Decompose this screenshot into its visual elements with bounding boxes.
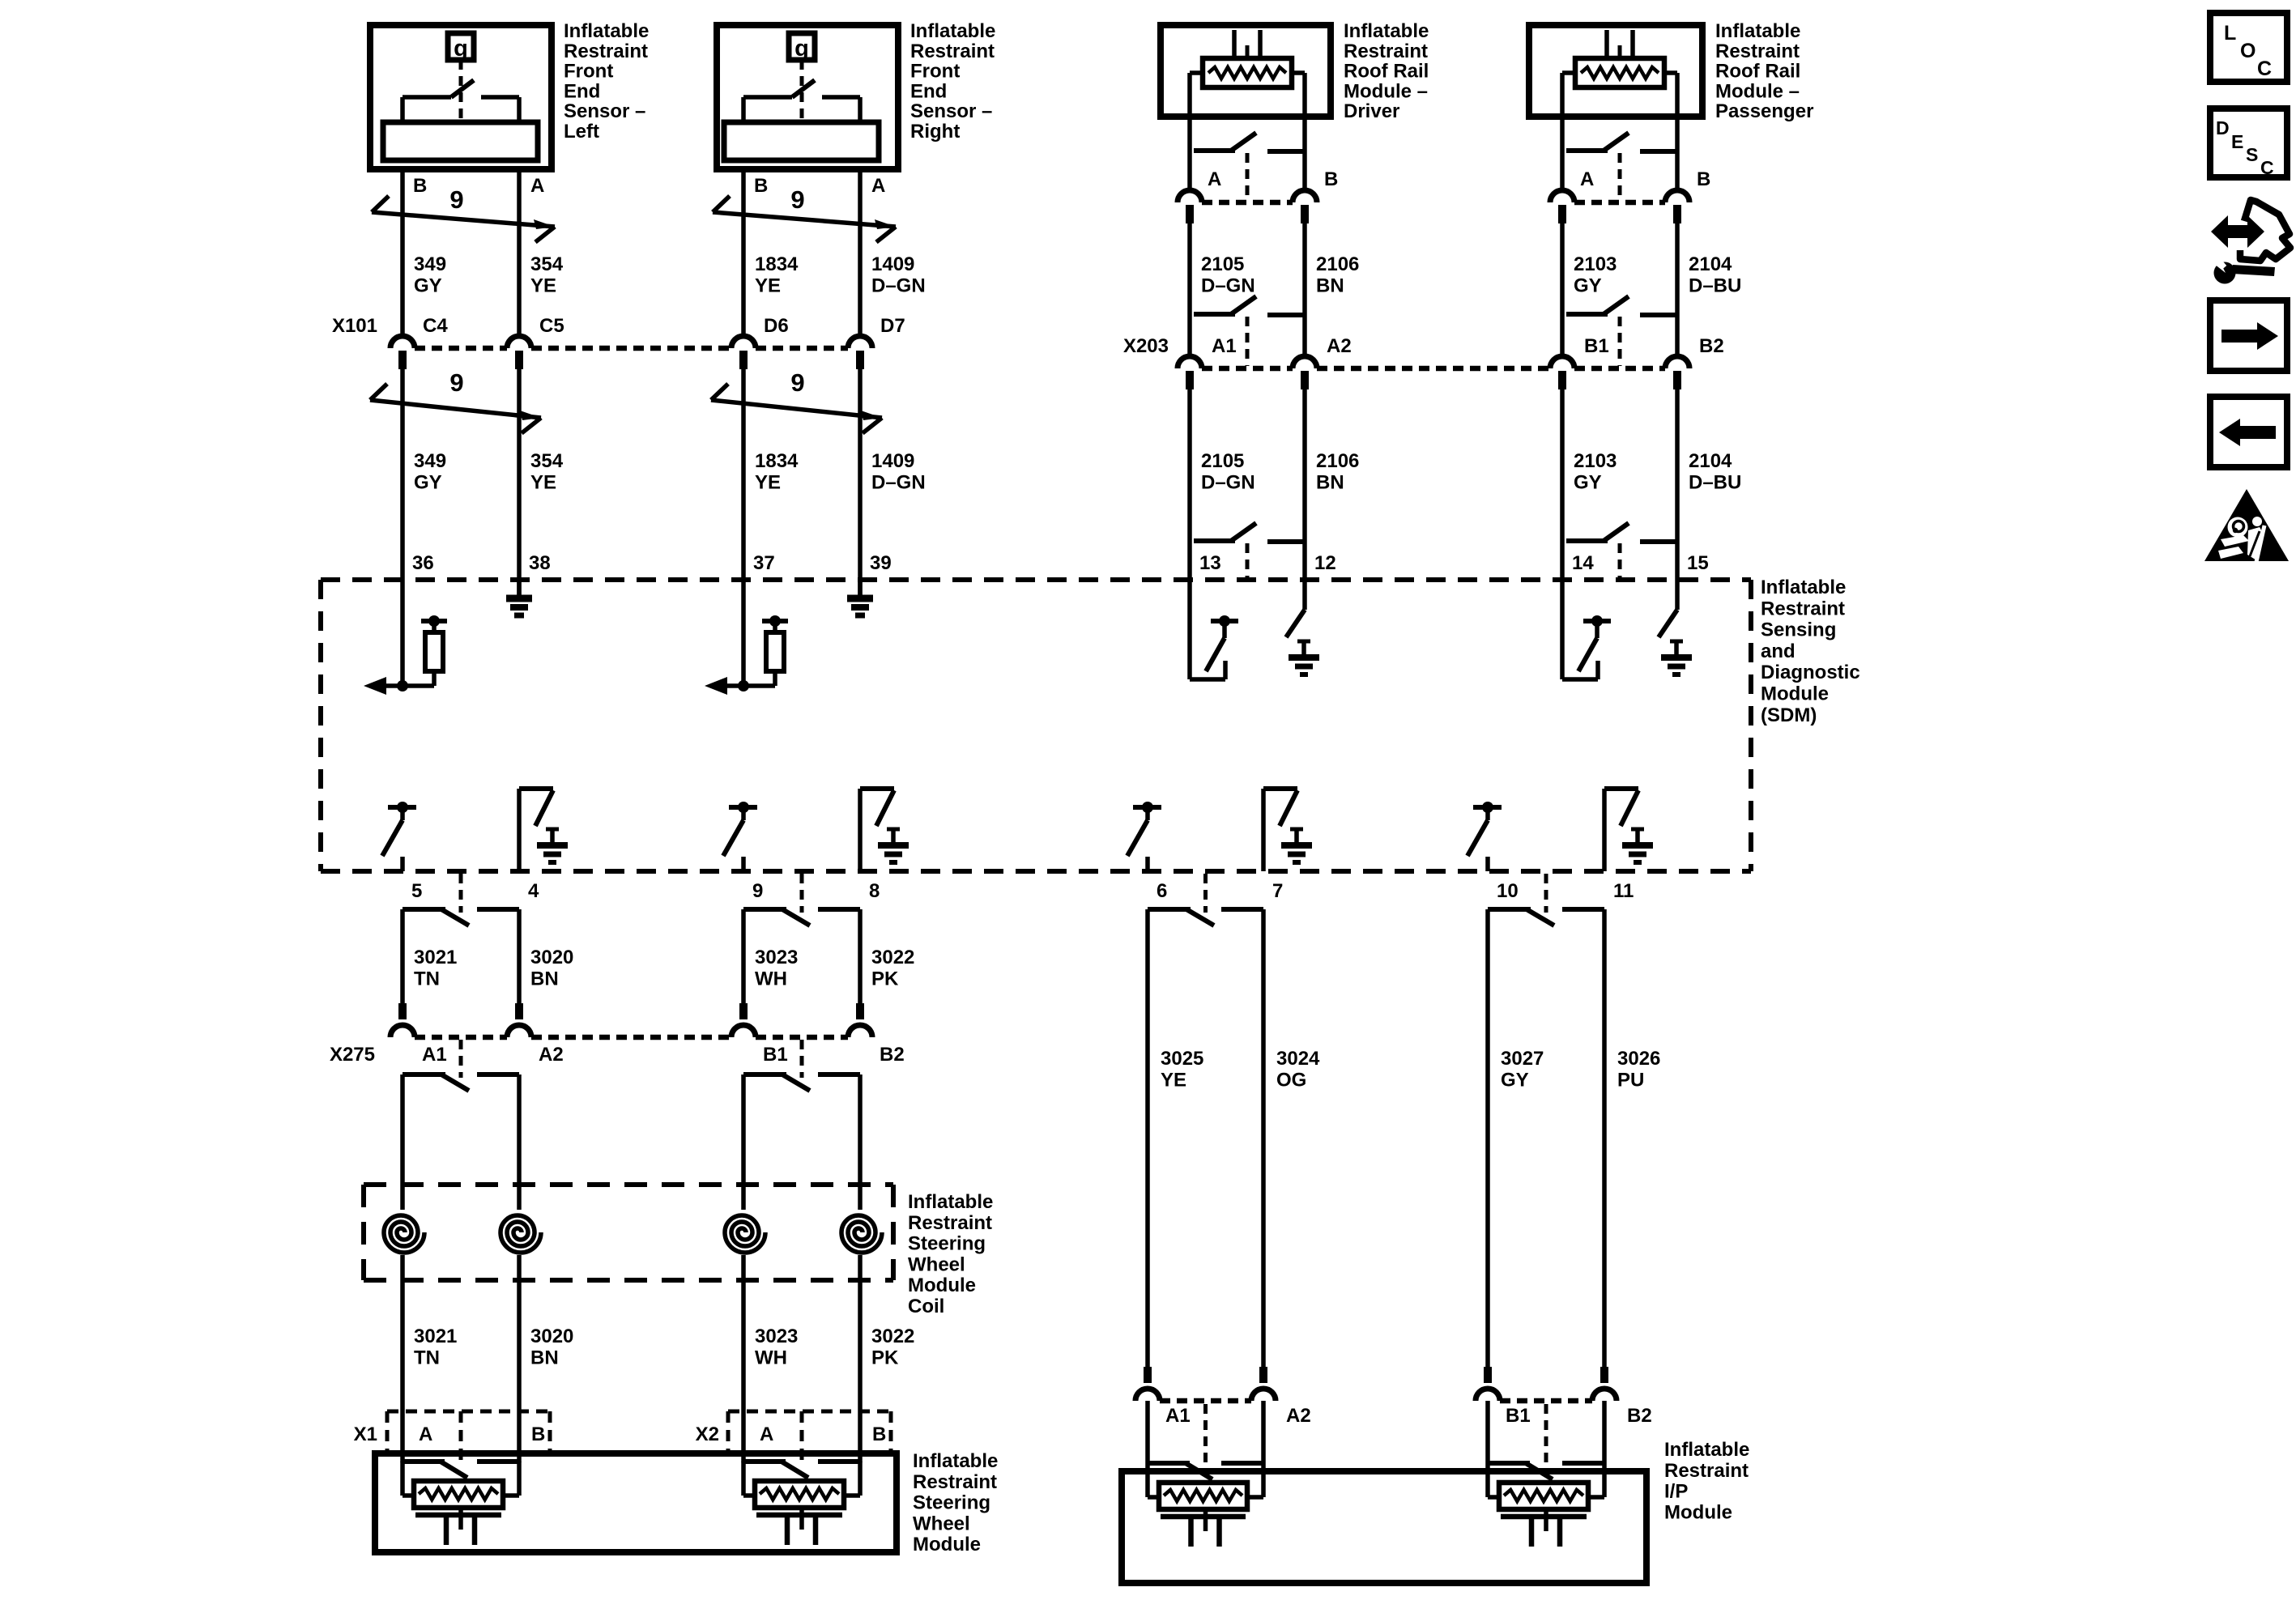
svg-text:Front: Front	[564, 61, 613, 83]
svg-text:X275: X275	[330, 1044, 375, 1066]
svg-text:YE: YE	[755, 274, 781, 296]
squib element inside Inflatable Restraint Roof Rail Module - Driver	[1190, 30, 1305, 189]
svg-text:I/P: I/P	[1664, 1481, 1688, 1503]
svg-text:9: 9	[790, 368, 804, 397]
wire label 354 YE	[530, 253, 564, 296]
wire label 2105 D–GN	[1201, 253, 1255, 296]
wire 354 YE segment: X101 to SDM pin 38	[517, 369, 522, 580]
svg-text:A2: A2	[539, 1044, 564, 1066]
svg-text:4: 4	[528, 880, 539, 902]
wire label 3022 PK	[871, 947, 914, 989]
svg-text:349: 349	[414, 253, 446, 275]
svg-text:36: 36	[412, 552, 434, 574]
svg-text:Wheel: Wheel	[908, 1253, 965, 1275]
svg-text:YE: YE	[755, 471, 781, 493]
svg-text:B: B	[1697, 168, 1710, 190]
svg-text:C: C	[2257, 57, 2272, 80]
connector X101 terminal C5	[507, 336, 531, 369]
svg-text:Roof Rail: Roof Rail	[1344, 61, 1429, 83]
svg-text:L: L	[2224, 22, 2236, 45]
wire label 1834 YE	[755, 450, 799, 493]
svg-text:15: 15	[1687, 552, 1709, 574]
svg-text:7: 7	[1272, 880, 1283, 902]
wire 1834 YE segment: sensor pin B to X101	[741, 172, 746, 335]
svg-text:Right: Right	[910, 121, 960, 143]
svg-text:A: A	[419, 1423, 432, 1445]
svg-text:BN: BN	[1316, 471, 1344, 493]
svg-text:Restraint: Restraint	[908, 1212, 992, 1234]
wire label 2103 GY	[1574, 253, 1617, 296]
connector X101 terminal D7	[848, 336, 872, 369]
svg-text:O: O	[2240, 40, 2256, 62]
connector terminal B of Inflatable Restraint Roof Rail Module - Passenger	[1665, 190, 1689, 223]
svg-text:A: A	[871, 175, 885, 197]
wire 3024 OG segment: SDM to I/P module	[1261, 909, 1266, 1368]
svg-text:38: 38	[529, 552, 551, 574]
wire 2105 D–GN segment: X203 to SDM pin 13	[1187, 388, 1192, 580]
wire count marker: 9	[370, 368, 541, 433]
svg-text:YE: YE	[530, 274, 556, 296]
svg-text:8: 8	[869, 880, 880, 902]
svg-text:2105: 2105	[1201, 253, 1244, 275]
connector X275 dashed body	[415, 1035, 848, 1040]
wire label 1409 D–GN	[871, 253, 926, 296]
svg-text:6: 6	[1157, 880, 1167, 902]
svg-text:1409: 1409	[871, 450, 914, 472]
I/P module connector pin labels A1 A2 B1 B2	[1165, 1405, 1652, 1427]
wire label 2106 BN	[1316, 253, 1359, 296]
wire 2105 D–GN segment: roof rail module to X203	[1187, 223, 1192, 357]
svg-text:B: B	[872, 1423, 886, 1445]
wire 3025 YE segment: SDM to I/P module	[1145, 909, 1150, 1368]
pin letters A/B of Inflatable Restraint Roof Rail Module - Passenger	[1580, 168, 1710, 190]
wires from I/P connector into module	[1148, 1401, 1263, 1463]
svg-text:Front: Front	[910, 61, 960, 83]
SDM pin labels 36 38	[412, 552, 551, 574]
svg-text:13: 13	[1199, 552, 1221, 574]
svg-text:Inflatable: Inflatable	[910, 20, 995, 42]
wire 1834 YE segment: X101 to SDM pin 37	[741, 369, 746, 580]
svg-text:Module: Module	[913, 1534, 981, 1555]
I/P module connector terminal A2	[1251, 1367, 1276, 1401]
svg-text:B: B	[754, 175, 768, 197]
svg-text:1834: 1834	[755, 253, 799, 275]
wire label 3023 WH	[755, 1326, 798, 1368]
svg-text:E: E	[2231, 131, 2243, 152]
connector symbol at Inflatable Restraint Roof Rail Module - Driver (A/B)	[1194, 133, 1305, 200]
svg-text:3024: 3024	[1276, 1048, 1320, 1070]
wire 2104 D–BU segment: roof rail module to X203	[1675, 223, 1680, 357]
label: Inflatable Restraint Steering Wheel Module	[913, 1450, 998, 1555]
wire 3027 GY segment: SDM to I/P module	[1485, 909, 1490, 1368]
svg-text:YE: YE	[1161, 1069, 1186, 1091]
wire count marker: 9	[713, 185, 896, 242]
svg-text:A: A	[530, 175, 544, 197]
wire 349 GY segment: X101 to SDM pin 36	[400, 369, 405, 580]
connector X203 pin labels A1 A2 B1 B2	[1212, 335, 1724, 357]
svg-text:TN: TN	[414, 968, 440, 989]
wire label 1409 D–GN	[871, 450, 926, 493]
svg-text:Coil: Coil	[908, 1296, 944, 1317]
svg-text:Roof Rail: Roof Rail	[1715, 61, 1800, 83]
svg-text:Sensor –: Sensor –	[910, 100, 992, 122]
svg-text:A1: A1	[422, 1044, 447, 1066]
svg-text:D–BU: D–BU	[1689, 471, 1741, 493]
wire 2106 BN segment: X203 to SDM pin 12	[1302, 388, 1307, 580]
connector X1 pin labels A B	[419, 1423, 545, 1445]
svg-text:2104: 2104	[1689, 253, 1732, 275]
wire label 2103 GY	[1574, 450, 1617, 493]
wire label 2105 D–GN	[1201, 450, 1255, 493]
svg-text:Restraint: Restraint	[1715, 40, 1800, 62]
connector dashed body at Inflatable Restraint Roof Rail Module - Driver	[1202, 200, 1293, 206]
sensor element (g-switch) inside Inflatable Restraint Front End Sensor - Right	[724, 33, 879, 160]
svg-text:2106: 2106	[1316, 450, 1359, 472]
wire label 354 YE	[530, 450, 564, 493]
wire label 3021 TN	[414, 947, 457, 989]
svg-text:WH: WH	[755, 968, 787, 989]
SDM pin labels 6 7	[1157, 880, 1283, 902]
svg-text:10: 10	[1497, 880, 1519, 902]
svg-text:End: End	[564, 80, 600, 102]
svg-text:3023: 3023	[755, 947, 798, 968]
svg-text:X1: X1	[354, 1423, 377, 1445]
coil L1 (clockspring winding)	[384, 1215, 424, 1253]
svg-text:3027: 3027	[1501, 1048, 1544, 1070]
wire label 2106 BN	[1316, 450, 1359, 493]
label: Inflatable Restraint Steering Wheel Module Coil	[908, 1191, 993, 1317]
svg-text:9: 9	[449, 368, 463, 397]
wire count marker: 9	[711, 368, 882, 433]
svg-text:Wheel: Wheel	[913, 1513, 970, 1534]
svg-text:g: g	[454, 36, 468, 62]
svg-text:3020: 3020	[530, 1326, 573, 1347]
SDM pin labels 10 11	[1497, 880, 1634, 902]
wire 3020 BN segment: X275 to coil	[517, 1074, 522, 1210]
SDM pin labels 5 4	[411, 880, 539, 902]
svg-text:Module –: Module –	[1344, 80, 1428, 102]
svg-text:A: A	[760, 1423, 773, 1445]
connector X203 symbol right pair	[1566, 296, 1677, 366]
connector X2 pin labels A B	[760, 1423, 886, 1445]
SDM internal switch-to-ground at pin 7	[1263, 789, 1312, 871]
connector terminal A of Inflatable Restraint Roof Rail Module - Passenger	[1550, 190, 1574, 223]
svg-text:Module: Module	[1761, 683, 1829, 705]
svg-text:GY: GY	[414, 274, 442, 296]
svg-text:D–GN: D–GN	[871, 274, 926, 296]
svg-text:B1: B1	[1506, 1405, 1531, 1427]
svg-text:X2: X2	[696, 1423, 719, 1445]
svg-text:WH: WH	[755, 1347, 787, 1368]
connector X1 dashed outline	[387, 1411, 550, 1462]
pin letters A/B of Inflatable Restraint Roof Rail Module - Driver	[1208, 168, 1338, 190]
svg-text:GY: GY	[1501, 1069, 1529, 1091]
connector X1 label	[354, 1423, 377, 1445]
svg-text:B: B	[531, 1423, 545, 1445]
wire label 3023 WH	[755, 947, 798, 989]
svg-text:349: 349	[414, 450, 446, 472]
svg-text:354: 354	[530, 253, 564, 275]
svg-text:g: g	[794, 36, 809, 62]
svg-text:Restraint: Restraint	[1761, 598, 1845, 619]
icon: airbag warning triangle	[2204, 489, 2289, 562]
svg-text:Passenger: Passenger	[1715, 100, 1813, 122]
SDM internal switch-to-ground at pin 15	[1659, 580, 1692, 674]
SDM internal deployment loop driver at pin 37	[705, 580, 788, 695]
svg-text:S: S	[2246, 144, 2258, 165]
squib element inside Inflatable Restraint Roof Rail Module - Passenger	[1562, 30, 1677, 189]
svg-text:5: 5	[411, 880, 422, 902]
SDM internal switch at pin 6	[1127, 802, 1161, 871]
wire 3022 PK segment: coil to steering wheel module	[858, 1255, 863, 1462]
connector terminal B of Inflatable Restraint Roof Rail Module - Driver	[1293, 190, 1317, 223]
svg-text:3025: 3025	[1161, 1048, 1203, 1070]
svg-text:(SDM): (SDM)	[1761, 704, 1817, 726]
wire 3023 WH segment: SDM to X275	[741, 909, 746, 1004]
connector X101 dashed body	[415, 346, 848, 351]
svg-text:B1: B1	[1584, 335, 1609, 357]
I/P module connector terminal B1	[1476, 1367, 1500, 1401]
pin letters B/A of Inflatable Restraint Front End Sensor - Left	[413, 175, 544, 197]
svg-text:14: 14	[1572, 552, 1594, 574]
wire label 3026 PU	[1617, 1048, 1660, 1091]
SDM internal ground at pin 38	[506, 580, 532, 615]
wire 349 GY segment: sensor pin B to X101	[400, 172, 405, 335]
SDM connector symbol at pins 13/12	[1194, 523, 1305, 577]
svg-text:2105: 2105	[1201, 450, 1244, 472]
connector X101 label	[332, 315, 377, 337]
connector X203 terminal A2	[1293, 356, 1317, 389]
wire 2103 GY segment: X203 to SDM pin 14	[1560, 388, 1565, 580]
svg-text:OG: OG	[1276, 1069, 1306, 1091]
svg-text:3021: 3021	[414, 947, 457, 968]
svg-text:BN: BN	[1316, 274, 1344, 296]
connector X275 label	[330, 1044, 375, 1066]
box: Inflatable Restraint Steering Wheel Module Coil, dashed outline	[364, 1185, 893, 1280]
svg-text:A1: A1	[1165, 1405, 1191, 1427]
wire 2104 D–BU segment: X203 to SDM pin 15	[1675, 388, 1680, 580]
svg-text:9: 9	[752, 880, 763, 902]
wire label 349 GY	[414, 253, 446, 296]
connector X275 terminal A1	[390, 1003, 415, 1037]
svg-text:9: 9	[790, 185, 804, 214]
svg-text:A: A	[1208, 168, 1221, 190]
svg-text:2104: 2104	[1689, 450, 1732, 472]
svg-text:YE: YE	[530, 471, 556, 493]
svg-text:GY: GY	[414, 471, 442, 493]
svg-text:D6: D6	[764, 315, 789, 337]
connector X2 label	[696, 1423, 719, 1445]
pin letters B/A of Inflatable Restraint Front End Sensor - Right	[754, 175, 885, 197]
svg-text:C4: C4	[423, 315, 448, 337]
driver airbag squib (steering wheel module, circuit 1)	[403, 1462, 519, 1545]
svg-text:3021: 3021	[414, 1326, 457, 1347]
svg-text:Driver: Driver	[1344, 100, 1399, 122]
connector symbol at Inflatable Restraint Roof Rail Module - Passenger (A/B)	[1566, 133, 1677, 200]
svg-text:B: B	[1324, 168, 1338, 190]
svg-text:37: 37	[753, 552, 775, 574]
wire 3021 TN segment: SDM to X275	[400, 909, 405, 1004]
wire 3023 WH segment: coil to steering wheel module	[741, 1255, 746, 1462]
connector X101 terminal C4	[390, 336, 415, 369]
svg-text:Inflatable: Inflatable	[1715, 20, 1800, 42]
passenger airbag squib (I/P module, circuit 1)	[1148, 1463, 1263, 1547]
svg-text:C: C	[2260, 157, 2274, 178]
svg-text:Inflatable: Inflatable	[913, 1450, 998, 1472]
svg-text:354: 354	[530, 450, 564, 472]
svg-text:B1: B1	[763, 1044, 788, 1066]
wire 2103 GY segment: roof rail module to X203	[1560, 223, 1565, 357]
svg-text:Restraint: Restraint	[1344, 40, 1428, 62]
connector X275 symbol left pair	[403, 1040, 519, 1091]
wire label 3024 OG	[1276, 1048, 1320, 1091]
svg-text:BN: BN	[530, 968, 559, 989]
SDM connector symbol at pins 14/15	[1566, 523, 1677, 577]
SDM pin labels 9 8	[752, 880, 880, 902]
svg-text:D–GN: D–GN	[1201, 274, 1255, 296]
connector X275 pin labels A1 A2 B1 B2	[422, 1044, 905, 1066]
connector dashed body at Inflatable Restraint Roof Rail Module - Passenger	[1574, 200, 1665, 206]
svg-text:Inflatable: Inflatable	[564, 20, 649, 42]
svg-text:12: 12	[1314, 552, 1336, 574]
svg-text:PU: PU	[1617, 1069, 1644, 1091]
svg-text:2103: 2103	[1574, 450, 1617, 472]
wire count marker: 9	[372, 185, 555, 242]
connector X2 dashed outline	[728, 1411, 891, 1462]
wire 3022 PK segment: SDM to X275	[858, 909, 863, 1004]
connector X101 terminal D6	[731, 336, 756, 369]
wire label 349 GY	[414, 450, 446, 493]
connector X203 label	[1123, 335, 1169, 357]
box B2: Inflatable Restraint Front End Sensor - Right	[717, 25, 898, 169]
svg-text:Restraint: Restraint	[913, 1471, 997, 1493]
icon: forward arrow button	[2210, 300, 2287, 371]
SDM internal switch-to-ground at pin 8	[860, 789, 909, 871]
label: Inflatable Restraint I/P Module	[1664, 1439, 1749, 1523]
svg-text:A: A	[1580, 168, 1594, 190]
SDM internal switch-to-ground at pin 11	[1604, 789, 1653, 871]
svg-text:B2: B2	[880, 1044, 905, 1066]
connector X203 terminal B2	[1665, 356, 1689, 389]
SDM internal switch at pin 14	[1562, 580, 1611, 679]
svg-text:Steering: Steering	[913, 1492, 990, 1514]
svg-text:D–BU: D–BU	[1689, 274, 1741, 296]
wire 3022 PK segment: X275 to coil	[858, 1074, 863, 1210]
svg-text:3022: 3022	[871, 1326, 914, 1347]
SDM internal switch at pin 9	[723, 802, 757, 871]
passenger airbag squib (I/P module, circuit 2)	[1488, 1463, 1604, 1547]
svg-text:BN: BN	[530, 1347, 559, 1368]
svg-text:Sensing: Sensing	[1761, 619, 1836, 641]
svg-text:D–GN: D–GN	[1201, 471, 1255, 493]
connector X203 terminal B1	[1550, 356, 1574, 389]
svg-text:Steering: Steering	[908, 1233, 986, 1255]
svg-text:3020: 3020	[530, 947, 573, 968]
wire 3023 WH segment: X275 to coil	[741, 1074, 746, 1210]
svg-text:Restraint: Restraint	[1664, 1460, 1749, 1482]
label: Inflatable Restraint Front End Sensor - Left	[564, 20, 649, 143]
svg-text:39: 39	[870, 552, 892, 574]
svg-text:1834: 1834	[755, 450, 799, 472]
wire label 3020 BN	[530, 947, 573, 989]
wire 3020 BN segment: SDM to X275	[517, 909, 522, 1004]
I/P module connector terminal A1	[1135, 1367, 1160, 1401]
box: Inflatable Restraint Roof Rail Module - Passenger	[1529, 25, 1702, 117]
SDM pin labels 13 12	[1199, 552, 1336, 574]
label: Inflatable Restraint Roof Rail Module - Passenger	[1715, 20, 1813, 122]
box U10: Inflatable Restraint Sensing and Diagnostic Module (SDM), dashed outline	[321, 580, 1751, 871]
wire 3021 TN segment: X275 to coil	[400, 1074, 405, 1210]
wire 354 YE segment: sensor pin A to X101	[517, 172, 522, 335]
wire 2106 BN segment: roof rail module to X203	[1302, 223, 1307, 357]
svg-text:9: 9	[449, 185, 463, 214]
sensor element (g-switch) inside Inflatable Restraint Front End Sensor - Left	[383, 33, 538, 160]
svg-text:Restraint: Restraint	[910, 40, 995, 62]
svg-text:Module –: Module –	[1715, 80, 1800, 102]
SDM connector symbol at pins 10/11	[1488, 874, 1604, 926]
SDM connector symbol at pins 6/7	[1148, 874, 1263, 926]
wire 3020 BN segment: coil to steering wheel module	[517, 1255, 522, 1462]
svg-text:3023: 3023	[755, 1326, 798, 1347]
svg-text:Inflatable: Inflatable	[1664, 1439, 1749, 1461]
box B1: Inflatable Restraint Front End Sensor - Left	[370, 25, 552, 169]
svg-text:A2: A2	[1286, 1405, 1311, 1427]
wire 3021 TN segment: coil to steering wheel module	[400, 1255, 405, 1462]
svg-text:Inflatable: Inflatable	[1344, 20, 1429, 42]
connector X275 terminal A2	[507, 1003, 531, 1037]
icon: LOC legend button	[2210, 13, 2287, 82]
svg-text:11: 11	[1613, 880, 1634, 902]
connector X275 terminal B1	[731, 1003, 756, 1037]
SDM pin labels 37 39	[753, 552, 892, 574]
svg-text:C5: C5	[539, 315, 564, 337]
svg-text:3022: 3022	[871, 947, 914, 968]
box: Inflatable Restraint Roof Rail Module - Driver	[1161, 25, 1331, 117]
SDM internal switch at pin 5	[382, 802, 416, 871]
label: Inflatable Restraint Sensing and Diagnostic Module (SDM)	[1761, 577, 1860, 726]
label: Inflatable Restraint Front End Sensor - Right	[910, 20, 995, 143]
SDM internal switch at pin 10	[1467, 802, 1502, 871]
svg-text:Diagnostic: Diagnostic	[1761, 662, 1860, 683]
svg-text:2106: 2106	[1316, 253, 1359, 275]
wire label 3020 BN	[530, 1326, 573, 1368]
wire label 3022 PK	[871, 1326, 914, 1368]
svg-text:Inflatable: Inflatable	[1761, 577, 1846, 598]
svg-text:A1: A1	[1212, 335, 1237, 357]
svg-text:D7: D7	[880, 315, 905, 337]
svg-text:PK: PK	[871, 968, 899, 989]
svg-text:B: B	[413, 175, 427, 197]
wire label 3025 YE	[1161, 1048, 1203, 1091]
wires from I/P connector into module	[1488, 1401, 1604, 1463]
SDM connector symbol at pins 9/8	[743, 874, 860, 926]
connector terminal A of Inflatable Restraint Roof Rail Module - Driver	[1178, 190, 1202, 223]
icon: back arrow button	[2210, 397, 2287, 467]
box: Inflatable Restraint I/P Module	[1122, 1471, 1646, 1583]
coil L3 (clockspring winding)	[725, 1215, 765, 1253]
svg-text:B2: B2	[1627, 1405, 1652, 1427]
svg-text:End: End	[910, 80, 947, 102]
SDM internal switch-to-ground at pin 4	[519, 789, 568, 871]
wire label 3021 TN	[414, 1326, 457, 1368]
svg-text:1409: 1409	[871, 253, 914, 275]
wire 1409 D–GN segment: X101 to SDM pin 39	[858, 369, 863, 580]
SDM internal ground at pin 39	[847, 580, 873, 615]
I/P module connector terminal B2	[1592, 1367, 1617, 1401]
svg-text:A2: A2	[1327, 335, 1352, 357]
SDM internal switch at pin 13	[1190, 580, 1238, 679]
connector X203 dashed body	[1202, 366, 1665, 372]
